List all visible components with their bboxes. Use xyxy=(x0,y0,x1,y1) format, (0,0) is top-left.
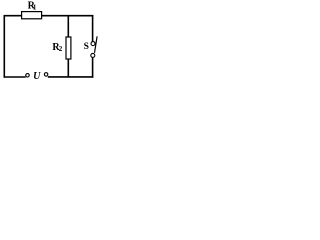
switch S top contact circle xyxy=(91,42,95,46)
wire right vertical top xyxy=(92,15,94,42)
resistor R1 xyxy=(22,12,42,19)
terminal circle right xyxy=(44,73,48,77)
svg-text:1: 1 xyxy=(33,4,37,12)
wire middle branch vertical top xyxy=(67,16,69,37)
terminal circle left xyxy=(26,74,30,78)
wire left vertical xyxy=(3,15,5,78)
switch S blade xyxy=(95,36,98,52)
wire middle branch vertical bottom xyxy=(67,59,69,77)
wire bottom-right horizontal xyxy=(48,76,94,78)
switch S bottom contact circle xyxy=(91,53,95,57)
resistor R2 xyxy=(66,37,71,59)
svg-text:2: 2 xyxy=(59,45,63,53)
wire top-right horizontal xyxy=(42,15,94,17)
wire top-left horizontal xyxy=(4,15,22,17)
wire bottom-left horizontal xyxy=(4,76,26,78)
svg-text:S: S xyxy=(84,42,89,52)
wire right vertical bottom xyxy=(92,57,94,77)
svg-text:U: U xyxy=(33,71,41,82)
